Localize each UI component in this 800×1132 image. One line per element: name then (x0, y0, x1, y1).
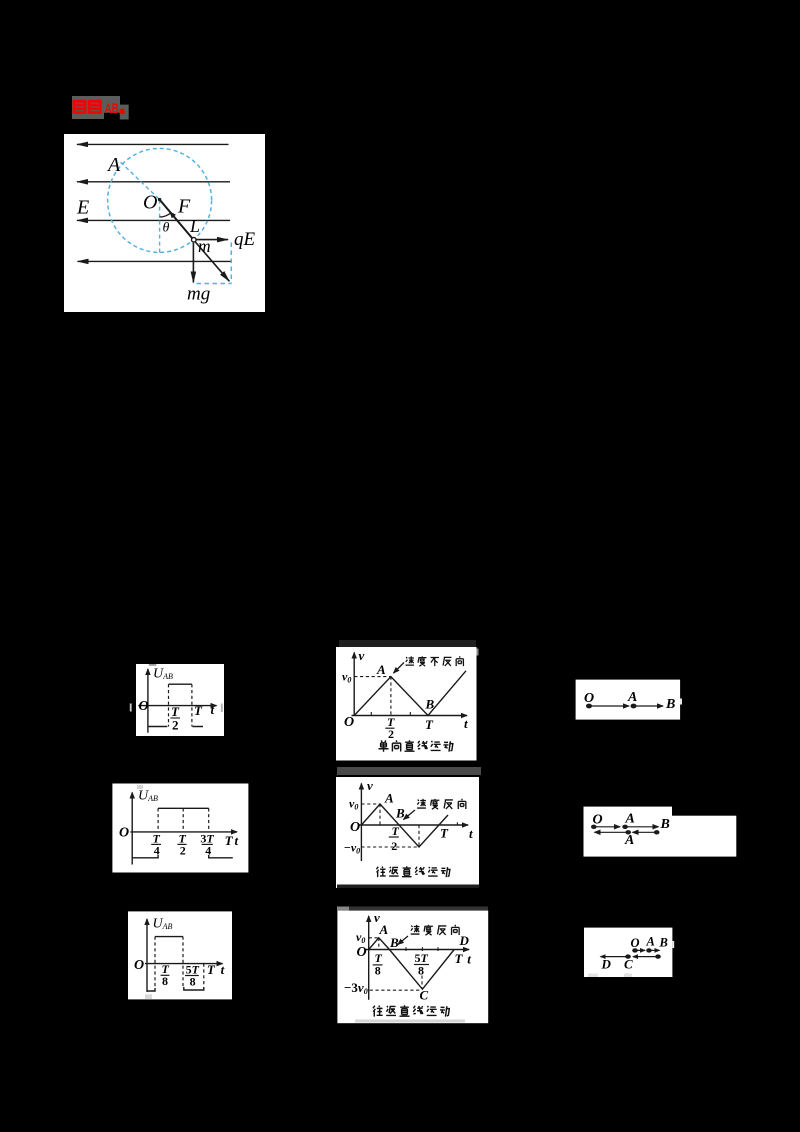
dashed verticals (169, 684, 192, 726)
svg-text:A: A (384, 791, 394, 806)
svg-text:B: B (425, 697, 435, 712)
field line 1 (77, 143, 229, 145)
svg-text:B: B (389, 935, 399, 950)
svg-text:v: v (359, 648, 365, 663)
x axis (359, 824, 468, 826)
arrow to C (633, 956, 658, 958)
svg-text:A: A (624, 833, 634, 848)
svg-text:C: C (624, 957, 633, 972)
svg-text:t: t (221, 962, 225, 977)
axis tick (456, 822, 458, 825)
white panel (336, 647, 477, 761)
O dot (586, 704, 592, 709)
white panel (584, 928, 672, 977)
A dot top (622, 825, 628, 829)
annotation arrow (394, 663, 405, 674)
white panel (136, 664, 224, 736)
wave (147, 937, 204, 991)
arrow A to B (634, 705, 664, 707)
field line 3 (77, 219, 230, 221)
A dot bottom (625, 830, 631, 834)
white panel (112, 784, 248, 873)
svg-text:A: A (627, 690, 637, 705)
dark bar at box bottom (337, 885, 479, 889)
dashed parallelogram blue (197, 243, 232, 284)
svg-text:B: B (395, 806, 405, 821)
svg-text:B: B (665, 697, 675, 712)
O dot (632, 948, 638, 952)
y axis (353, 653, 355, 717)
svg-text:B: B (659, 936, 668, 950)
white panel (337, 911, 488, 1024)
svg-text:A: A (646, 935, 655, 949)
arrow O to A (589, 705, 629, 707)
gray bar artifact above (339, 640, 476, 648)
y axis (146, 919, 148, 992)
wave (369, 938, 455, 989)
dashed verticals (158, 808, 209, 832)
axis ticks (371, 712, 410, 716)
annotation 速度反向 (417, 799, 466, 809)
y axis (368, 916, 370, 1000)
annotation arrow (398, 936, 408, 945)
svg-text:E: E (76, 197, 89, 219)
svg-text:t: t (235, 833, 239, 848)
x axis (366, 949, 469, 951)
svg-text:2: 2 (388, 727, 394, 741)
svg-text:O: O (357, 945, 367, 960)
arrow O to A (635, 949, 645, 951)
dashed v0 and T/2 (354, 677, 391, 716)
caption 往返直线运动 (373, 1005, 450, 1016)
x axis (130, 831, 237, 833)
svg-text:qE: qE (234, 229, 256, 250)
svg-text:O: O (134, 958, 144, 973)
triangle wave (354, 671, 466, 716)
annotation arrow (404, 810, 416, 820)
svg-text:t: t (464, 716, 468, 731)
svg-text:A: A (106, 154, 121, 176)
annotation text 速度不反向 (406, 656, 464, 666)
svg-text:8: 8 (418, 964, 424, 978)
qE arrow (196, 239, 228, 241)
svg-text:D: D (459, 933, 470, 948)
white panel (576, 680, 681, 720)
caption 往返直线运动 (376, 866, 450, 877)
svg-text:t: t (211, 702, 215, 717)
vertical dashed from O (159, 200, 161, 253)
string O to m (160, 200, 194, 240)
svg-text:A: A (379, 922, 389, 937)
wave (361, 804, 448, 847)
A dot (646, 948, 652, 952)
white panel main (584, 807, 673, 857)
svg-text:v: v (367, 778, 373, 793)
annotation 速度反向 (411, 925, 459, 935)
white panel (128, 911, 232, 999)
x axis (352, 715, 468, 717)
svg-text:O: O (344, 715, 354, 730)
svg-text:8: 8 (190, 975, 196, 989)
svg-text:O: O (631, 936, 640, 950)
gray bar artifact below (337, 767, 481, 775)
gray strip above (337, 907, 488, 911)
svg-text:m: m (198, 236, 211, 256)
ball m open circle (192, 238, 197, 243)
svg-text:D: D (601, 957, 612, 972)
svg-text:mg: mg (187, 284, 210, 305)
svg-text:L: L (189, 216, 200, 236)
svg-text:2: 2 (391, 839, 397, 853)
pivot dot O (158, 198, 161, 201)
dashed radius A-O (121, 162, 160, 199)
svg-text:T: T (425, 717, 434, 732)
bottom right dot (655, 954, 661, 958)
svg-text:C: C (420, 988, 429, 1003)
svg-text:A: A (376, 662, 386, 677)
svg-text:2: 2 (172, 718, 179, 733)
F arrow along string (170, 212, 182, 226)
answer gray patch (72, 96, 129, 120)
arrow C to D (601, 956, 629, 958)
svg-text:θ: θ (163, 221, 170, 236)
resultant arrow (196, 242, 230, 281)
svg-text:O: O (119, 826, 129, 841)
y axis (147, 669, 149, 733)
angle arc (160, 213, 171, 217)
svg-text:t: t (469, 826, 473, 841)
svg-text:T: T (440, 826, 449, 841)
svg-text:O: O (350, 820, 360, 835)
arrow A to B (649, 949, 660, 951)
svg-text:F: F (177, 196, 191, 218)
svg-text:4: 4 (154, 844, 160, 858)
svg-text:t: t (467, 952, 471, 967)
dashed blue circle (108, 148, 212, 252)
C dot (625, 954, 631, 958)
svg-text:O: O (593, 813, 603, 828)
svg-text:T: T (207, 962, 216, 977)
wave (132, 808, 233, 858)
svg-text:O: O (139, 699, 149, 714)
caption 单向直线运动 (378, 740, 453, 752)
svg-text:A: A (625, 812, 635, 827)
svg-text:8: 8 (375, 964, 381, 978)
svg-text:T: T (194, 703, 203, 718)
svg-text:T: T (392, 824, 400, 838)
dashed verticals (155, 937, 204, 987)
white panel (64, 134, 265, 312)
white panel extension (672, 816, 736, 857)
arrow A-to-O bottom (595, 831, 629, 833)
O dot (591, 825, 597, 829)
svg-text:O: O (584, 691, 594, 706)
svg-text:2: 2 (180, 844, 186, 858)
axis ticks (406, 947, 438, 951)
field line 2 (77, 181, 230, 183)
arrow A to B (625, 826, 658, 828)
svg-text:4: 4 (205, 844, 211, 858)
arrow right-to-A bottom (633, 831, 657, 833)
bottom dot right (654, 830, 660, 834)
svg-text:B: B (660, 817, 670, 832)
svg-text:AB: AB (105, 101, 119, 116)
svg-text:T: T (225, 833, 234, 848)
A dot (631, 704, 637, 709)
wave: negative then pulse (148, 684, 203, 726)
field line 4 (78, 260, 232, 262)
small scan artifacts (130, 704, 132, 712)
mg arrow (192, 243, 194, 283)
y axis (131, 793, 133, 865)
svg-text:O: O (143, 192, 157, 214)
arrow O to A (594, 826, 620, 828)
y axis (360, 784, 362, 862)
dashed lines (361, 804, 419, 847)
x axis (145, 963, 223, 965)
svg-text:8: 8 (162, 974, 168, 988)
dashed lines (369, 938, 422, 990)
svg-text:T: T (455, 951, 464, 966)
x axis (138, 705, 216, 707)
white panel (336, 777, 479, 888)
